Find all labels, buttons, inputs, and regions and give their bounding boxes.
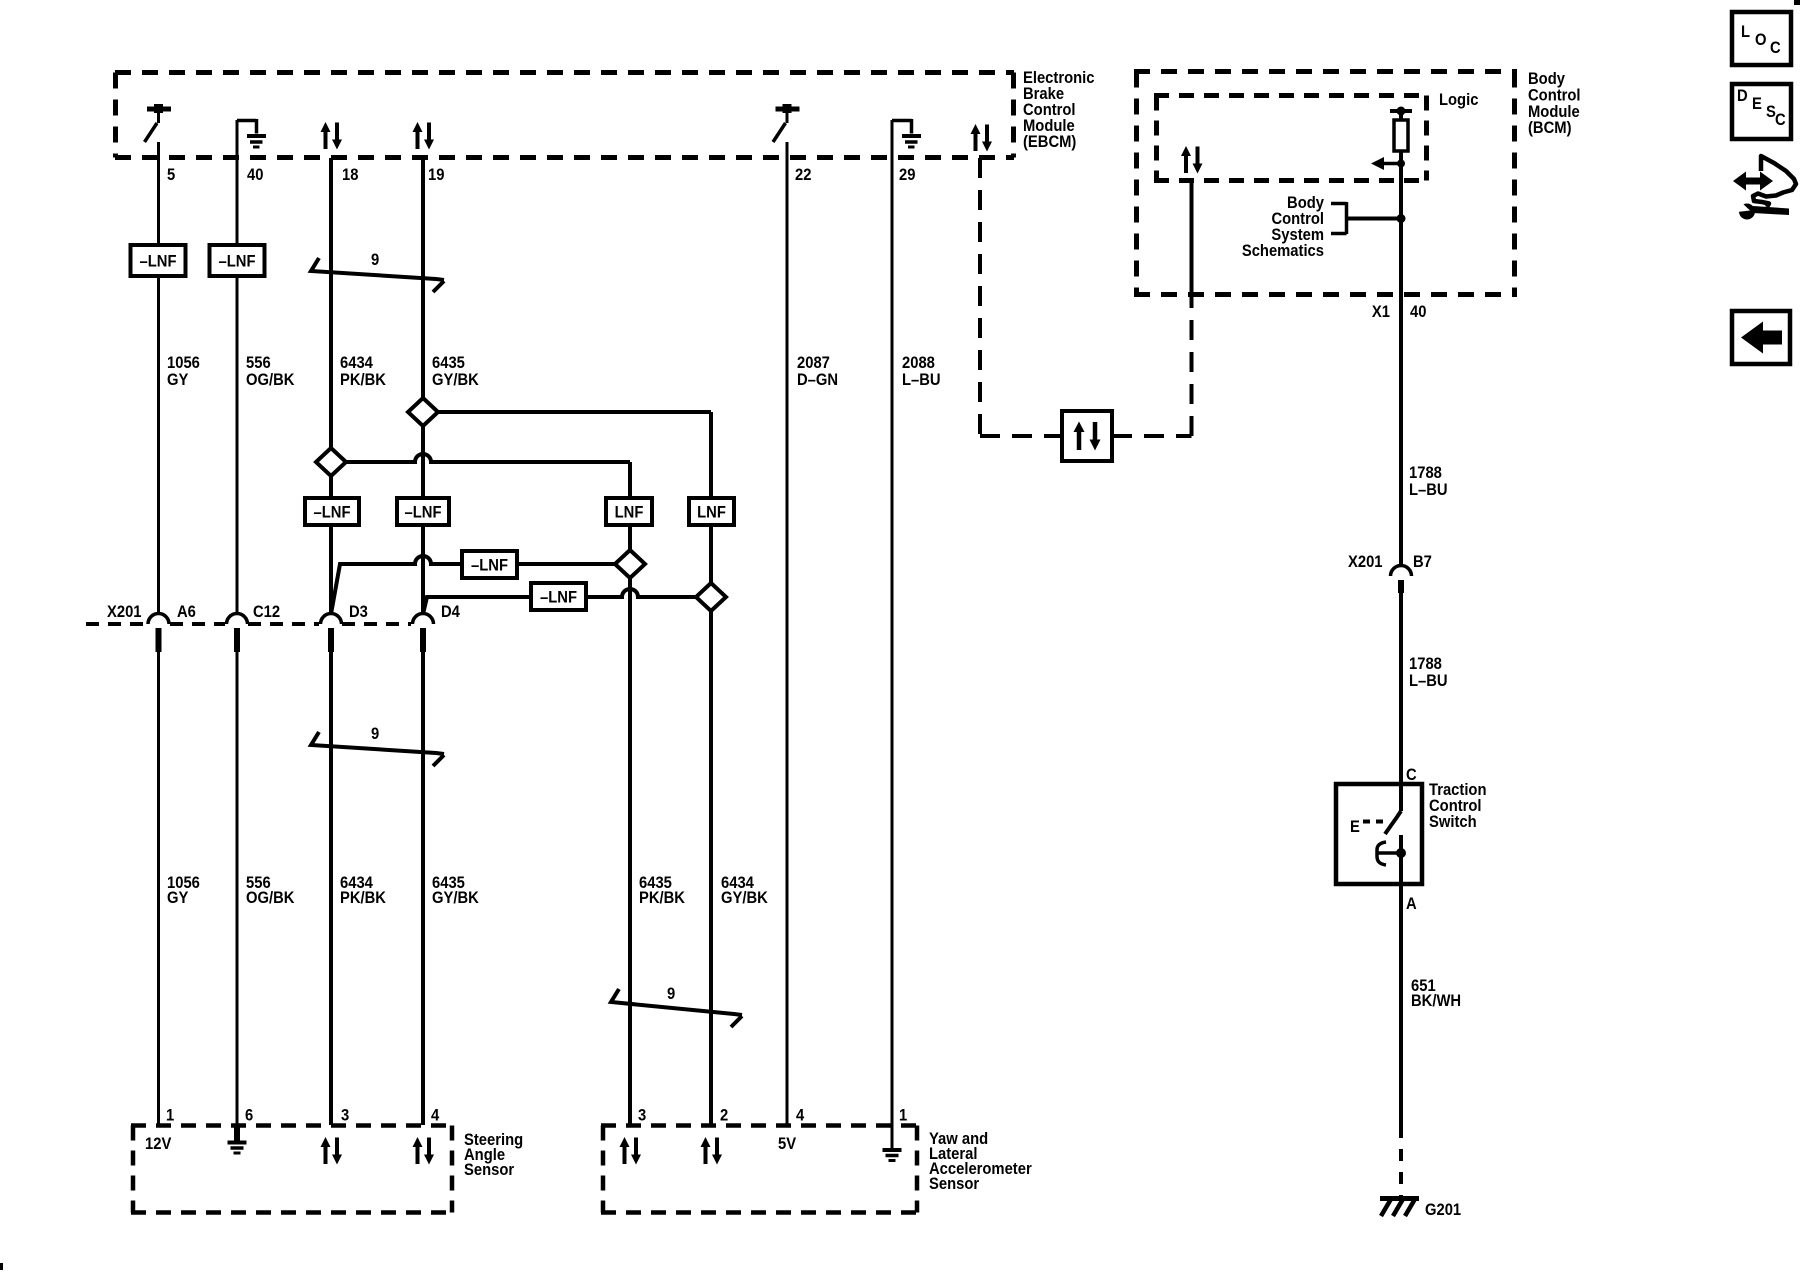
svg-text:19: 19: [428, 166, 445, 184]
svg-text:–LNF: –LNF: [219, 253, 256, 271]
svg-text:D: D: [1737, 87, 1748, 105]
svg-text:L–BU: L–BU: [902, 371, 941, 389]
svg-text:5V: 5V: [778, 1135, 796, 1153]
svg-text:D–GN: D–GN: [797, 371, 838, 389]
svg-text:GY/BK: GY/BK: [432, 371, 479, 389]
svg-text:6435: 6435: [432, 354, 465, 372]
svg-text:D3: D3: [349, 603, 368, 621]
svg-text:A6: A6: [177, 603, 196, 621]
svg-text:–LNF: –LNF: [140, 253, 177, 271]
svg-text:40: 40: [247, 166, 264, 184]
svg-text:GY/BK: GY/BK: [721, 889, 768, 907]
svg-text:L: L: [1741, 23, 1750, 41]
svg-text:12V: 12V: [145, 1135, 172, 1153]
svg-text:18: 18: [342, 166, 359, 184]
svg-text:1788: 1788: [1409, 464, 1442, 482]
svg-text:29: 29: [899, 166, 916, 184]
svg-text:D4: D4: [441, 603, 460, 621]
svg-text:–LNF: –LNF: [314, 504, 351, 522]
svg-text:Control: Control: [1528, 87, 1581, 105]
svg-text:3: 3: [638, 1107, 646, 1125]
svg-text:OG/BK: OG/BK: [246, 371, 295, 389]
svg-text:Body: Body: [1528, 70, 1565, 88]
svg-text:40: 40: [1410, 303, 1427, 321]
svg-text:(BCM): (BCM): [1528, 119, 1572, 137]
svg-text:–LNF: –LNF: [405, 504, 442, 522]
svg-text:6434: 6434: [340, 354, 373, 372]
svg-text:9: 9: [371, 725, 379, 743]
svg-text:PK/BK: PK/BK: [340, 889, 386, 907]
svg-text:1: 1: [166, 1107, 174, 1125]
svg-text:PK/BK: PK/BK: [639, 889, 685, 907]
svg-text:4: 4: [796, 1107, 804, 1125]
svg-text:X201: X201: [1348, 553, 1383, 571]
svg-text:9: 9: [371, 251, 379, 269]
svg-text:5: 5: [167, 166, 175, 184]
svg-text:E: E: [1350, 818, 1360, 836]
svg-text:B7: B7: [1413, 553, 1432, 571]
svg-text:O: O: [1755, 31, 1767, 49]
svg-text:3: 3: [341, 1107, 349, 1125]
svg-text:C: C: [1775, 111, 1786, 129]
svg-text:Switch: Switch: [1429, 813, 1477, 831]
svg-text:1056: 1056: [167, 354, 200, 372]
svg-text:(EBCM): (EBCM): [1023, 133, 1076, 151]
svg-text:X1: X1: [1372, 303, 1390, 321]
svg-text:2088: 2088: [902, 354, 935, 372]
svg-text:OG/BK: OG/BK: [246, 889, 295, 907]
svg-text:L–BU: L–BU: [1409, 672, 1448, 690]
svg-text:A: A: [1406, 895, 1417, 913]
svg-text:1: 1: [899, 1107, 907, 1125]
svg-text:22: 22: [795, 166, 812, 184]
svg-text:Logic: Logic: [1439, 91, 1479, 109]
svg-text:GY/BK: GY/BK: [432, 889, 479, 907]
svg-text:BK/WH: BK/WH: [1411, 992, 1461, 1010]
svg-text:GY: GY: [167, 371, 189, 389]
svg-text:–LNF: –LNF: [471, 557, 508, 575]
svg-text:G201: G201: [1425, 1201, 1461, 1219]
svg-text:PK/BK: PK/BK: [340, 371, 386, 389]
svg-text:2: 2: [720, 1107, 728, 1125]
svg-text:GY: GY: [167, 889, 189, 907]
svg-text:Sensor: Sensor: [464, 1161, 514, 1179]
svg-text:4: 4: [431, 1107, 439, 1125]
svg-text:9: 9: [667, 985, 675, 1003]
svg-text:LNF: LNF: [615, 504, 644, 522]
svg-text:C: C: [1770, 39, 1781, 57]
svg-text:Schematics: Schematics: [1242, 242, 1324, 260]
svg-text:2087: 2087: [797, 354, 830, 372]
svg-text:C12: C12: [253, 603, 280, 621]
svg-text:E: E: [1752, 95, 1762, 113]
svg-text:Sensor: Sensor: [929, 1175, 979, 1193]
svg-text:LNF: LNF: [697, 504, 726, 522]
svg-text:–LNF: –LNF: [540, 589, 577, 607]
svg-text:C: C: [1406, 766, 1417, 784]
svg-text:556: 556: [246, 354, 271, 372]
svg-text:6: 6: [245, 1107, 253, 1125]
svg-text:L–BU: L–BU: [1409, 481, 1448, 499]
svg-text:1788: 1788: [1409, 655, 1442, 673]
svg-text:X201: X201: [107, 603, 142, 621]
